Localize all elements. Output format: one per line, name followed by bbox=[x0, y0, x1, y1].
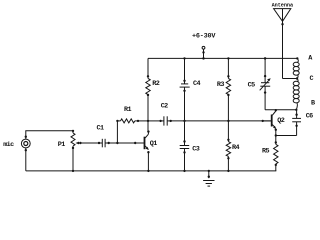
node mic top pin bbox=[25, 136, 27, 138]
node Q2 collector pin bbox=[275, 109, 277, 111]
node R3 rail junction bbox=[227, 57, 229, 59]
wire R1 branch vertical bbox=[116, 121, 118, 143]
node C4 rail junction bbox=[183, 57, 185, 59]
svg-text:C1: C1 bbox=[97, 125, 104, 133]
node mic bottom pin bbox=[25, 149, 27, 151]
node C4 bottom pin bbox=[183, 90, 185, 92]
node base line / R1 branch junction bbox=[116, 142, 118, 144]
svg-text:C6: C6 bbox=[306, 113, 313, 121]
node C3 bottom pin bbox=[183, 151, 185, 153]
svg-text:C4: C4 bbox=[193, 80, 200, 88]
node C5 bottom pin bbox=[264, 91, 266, 93]
svg-text:Q1: Q1 bbox=[150, 140, 157, 148]
node C1 left pin bbox=[98, 142, 100, 144]
svg-text:R4: R4 bbox=[232, 144, 239, 152]
svg-text:A: A bbox=[308, 55, 313, 63]
node R1 right pin bbox=[137, 120, 139, 122]
antenna bbox=[274, 9, 291, 22]
node R4 rail junction bbox=[227, 170, 229, 172]
potentiometer P1 bbox=[71, 133, 75, 146]
wire R1 left stub bbox=[117, 120, 120, 122]
resistor R2 bbox=[146, 78, 150, 94]
node Q2 emitter / C6 return junction bbox=[275, 134, 277, 136]
node C1 right pin bbox=[108, 142, 110, 144]
svg-text:C2: C2 bbox=[161, 102, 168, 110]
wire C1 to Q1 base bbox=[109, 142, 144, 144]
wire P1 bottom lead bbox=[72, 146, 74, 171]
node C2 right pin bbox=[170, 120, 172, 122]
wire mid line to C2 bbox=[148, 120, 161, 122]
svg-text:mic: mic bbox=[3, 141, 14, 149]
wire top rail +V bbox=[148, 57, 297, 59]
svg-text:B: B bbox=[311, 100, 315, 108]
node L1 tap C bbox=[296, 77, 298, 79]
node P1 bottom pin bbox=[72, 147, 74, 149]
node R4 bottom pin bbox=[227, 157, 229, 159]
wire C6 return to Q2 emitter bbox=[276, 135, 297, 137]
wire mic bottom lead bbox=[25, 148, 27, 171]
capacitor C4 bbox=[181, 83, 188, 85]
wire wiper to C1 bbox=[80, 142, 99, 144]
node Q2 emitter pin bbox=[275, 129, 277, 131]
transistor Q1 bbox=[144, 137, 146, 150]
resistor R1 bbox=[121, 119, 135, 123]
wire Q1 emitter down to rail bbox=[147, 152, 149, 171]
wire P1 top stub bbox=[72, 131, 74, 133]
wire mic top lead bbox=[26, 131, 73, 139]
wire R2 top lead to rail bbox=[147, 58, 149, 78]
node Q1 collector pin bbox=[147, 130, 149, 132]
node R3 top pin bbox=[227, 75, 229, 77]
wire C5 bottom to tap B line bbox=[265, 109, 296, 111]
node P1 bottom rail junction bbox=[72, 170, 74, 172]
node C3 rail junction bbox=[183, 170, 185, 172]
node Q1 emitter pin bbox=[147, 151, 149, 153]
svg-text:+6-30V: +6-30V bbox=[192, 33, 216, 41]
node R5 top pin bbox=[275, 141, 277, 143]
node mid line collector junction bbox=[147, 120, 149, 122]
node antenna pin bbox=[281, 23, 283, 25]
node R1 left pin bbox=[116, 120, 118, 122]
node R2 bottom pin bbox=[147, 94, 149, 96]
node R4 top pin bbox=[227, 139, 229, 141]
node C6 bottom pin bbox=[295, 125, 297, 127]
resistor R4 bbox=[226, 142, 230, 157]
svg-text:R5: R5 bbox=[262, 147, 269, 155]
node mid line R3/R4 junction bbox=[227, 120, 229, 122]
capacitor C1 bbox=[101, 139, 103, 148]
node C5 rail junction bbox=[264, 57, 266, 59]
capacitor C6 bbox=[292, 117, 301, 119]
inductor L1 bottom section bbox=[297, 79, 298, 82]
mic MIC bbox=[21, 139, 30, 148]
wire R1 right lead bbox=[135, 120, 148, 122]
node mid line C3/C4 junction bbox=[183, 120, 185, 122]
node P1 wiper pin bbox=[79, 142, 81, 144]
node rail supply junction dot bbox=[202, 57, 204, 59]
power terminal +6-30V bbox=[202, 46, 205, 49]
node C5 top pin bbox=[264, 75, 266, 77]
node C3 top pin bbox=[183, 140, 185, 142]
node rail C5 junction dot bbox=[264, 57, 266, 59]
wire P1 wiper arrow bbox=[77, 142, 81, 144]
node P1 top pin bbox=[72, 130, 74, 132]
wire mid line C2 to Q2 base bbox=[171, 120, 271, 122]
svg-text:C: C bbox=[310, 75, 314, 83]
resistor R5 bbox=[274, 144, 278, 164]
svg-text:R1: R1 bbox=[124, 106, 131, 114]
ground bbox=[208, 171, 210, 178]
svg-text:R2: R2 bbox=[152, 80, 159, 88]
wire bottom rail ground bus bbox=[26, 170, 276, 172]
node C2 left pin bbox=[159, 120, 161, 122]
inductor L1 top section bbox=[297, 58, 298, 62]
capacitor C2 bbox=[163, 116, 165, 125]
node L1 tap A bbox=[296, 57, 298, 59]
capacitor C3 bbox=[180, 145, 190, 147]
node Q1 emitter rail junction bbox=[147, 170, 149, 172]
transistor Q2 bbox=[271, 115, 273, 127]
node C6 top pin bbox=[295, 114, 297, 116]
node R3 bottom pin bbox=[227, 94, 229, 96]
node R2 top pin bbox=[147, 75, 149, 77]
svg-text:C3: C3 bbox=[192, 146, 199, 154]
node R5 bottom pin bbox=[275, 164, 277, 166]
wire Q1 collector up bbox=[147, 132, 149, 135]
svg-text:C5: C5 bbox=[248, 82, 255, 90]
svg-text:Antenna: Antenna bbox=[272, 3, 293, 9]
node C4 top pin bbox=[183, 80, 185, 82]
wire Q2 emitter down bbox=[275, 130, 277, 145]
svg-text:P1: P1 bbox=[58, 141, 65, 149]
node L1 tap B bbox=[295, 109, 297, 111]
variable capacitor C5 bbox=[261, 82, 269, 84]
svg-text:R3: R3 bbox=[217, 81, 224, 89]
svg-text:Q2: Q2 bbox=[277, 117, 284, 125]
resistor R3 bbox=[226, 78, 230, 94]
wire antenna to tap C bbox=[283, 78, 298, 80]
